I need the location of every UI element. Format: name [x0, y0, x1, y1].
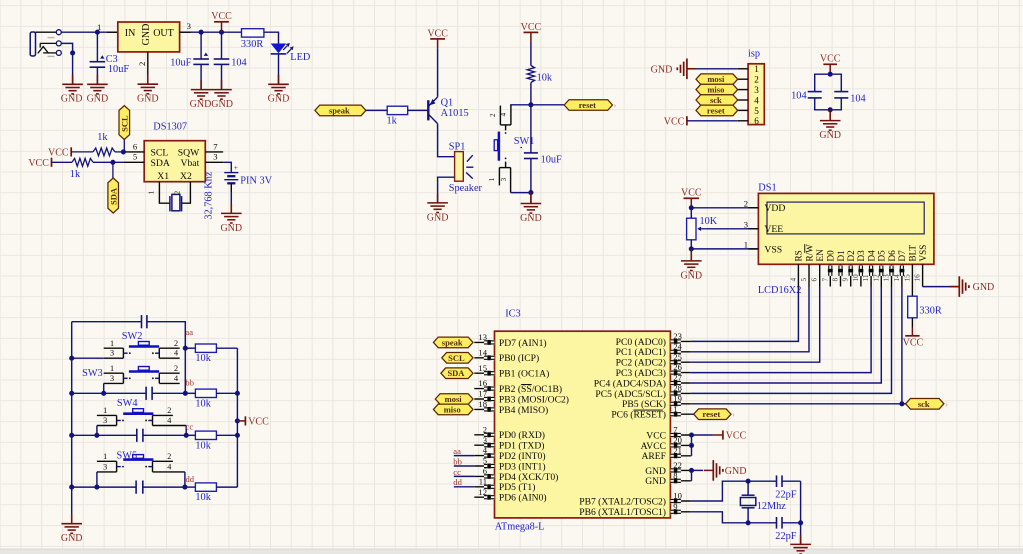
power VCC backlight — [903, 328, 924, 349]
svg-text:AVCC: AVCC — [641, 441, 666, 452]
wire Q1 collector to speaker — [438, 124, 455, 157]
wire SW3 pin3 to rail2 — [103, 383, 105, 393]
wire to ground pot — [690, 249, 692, 261]
junction crystal bottom — [746, 520, 751, 525]
ground LED — [268, 75, 289, 94]
svg-text:A1015: A1015 — [441, 108, 469, 119]
svg-text:1: 1 — [103, 452, 107, 461]
wire SW2 pin3 to left rail — [72, 357, 104, 359]
svg-text:GND: GND — [520, 213, 542, 224]
resistor 1k SCL pullup — [71, 148, 123, 156]
pin 9 D2 of LCD — [842, 250, 856, 287]
svg-text:4: 4 — [483, 445, 488, 455]
resistor 330R backlight — [908, 287, 917, 328]
svg-text:PD7 (AIN1): PD7 (AIN1) — [499, 338, 547, 349]
svg-text:speak: speak — [329, 105, 350, 115]
transistor Q1 A1015 — [428, 96, 437, 123]
svg-text:LCD16X2: LCD16X2 — [758, 285, 801, 296]
junction SDA — [110, 160, 115, 165]
crystal 12Mhz — [740, 481, 755, 523]
svg-text:VCC: VCC — [646, 430, 666, 441]
svg-text:5: 5 — [483, 456, 487, 466]
svg-text:330R: 330R — [919, 306, 941, 317]
wire PB7 to crystal top — [691, 481, 749, 501]
wire rail3 — [72, 434, 187, 436]
svg-text:10k: 10k — [195, 353, 211, 364]
svg-text:PC0 (ADC0): PC0 (ADC0) — [616, 337, 666, 348]
svg-text:22pF: 22pF — [775, 490, 796, 501]
svg-text:3: 3 — [110, 374, 114, 383]
pin 1 of isp — [738, 68, 748, 70]
LED D1 — [271, 43, 294, 54]
wire left rail to ground — [71, 514, 73, 524]
wire cc to PD4 — [454, 475, 475, 477]
svg-text:1: 1 — [488, 177, 496, 181]
svg-text:SDA: SDA — [108, 187, 118, 205]
pin 21 AREF of IC3 — [641, 445, 690, 462]
wire to ground decoupling — [829, 110, 831, 121]
svg-text:VEE: VEE — [764, 224, 783, 235]
junction rail2 far right — [235, 391, 240, 396]
bottom scrollbar strip — [0, 549, 1023, 554]
svg-text:VCC: VCC — [664, 116, 685, 127]
wire SW1 to ground node — [511, 192, 531, 194]
pin 15 PB1 (OC1A) of IC3 — [474, 363, 549, 380]
svg-text:9: 9 — [842, 278, 850, 282]
svg-text:AREF: AREF — [641, 451, 666, 462]
pin 8 GND of IC3 — [645, 470, 690, 487]
wire bb to PD3 — [454, 465, 475, 467]
pin 2 PD0 (RXD) of IC3 — [474, 424, 545, 441]
resistor 10k row1 — [185, 347, 195, 349]
svg-text:13: 13 — [478, 332, 487, 342]
svg-text:PB1 (OC1A): PB1 (OC1A) — [499, 369, 549, 380]
svg-text:SW2: SW2 — [122, 331, 143, 342]
pin 14 PB0 (ICP) of IC3 — [474, 347, 539, 364]
connector J1 power jack — [30, 30, 61, 57]
svg-text:104: 104 — [791, 90, 806, 101]
junction reset node — [528, 102, 533, 107]
pin 15 BLT of LCD — [903, 245, 917, 287]
junction VDD — [689, 205, 694, 210]
ground isp rotated left — [687, 68, 697, 70]
svg-text:9: 9 — [673, 501, 677, 511]
svg-text:GND: GND — [725, 466, 747, 477]
ground switches — [61, 514, 82, 533]
svg-text:1: 1 — [110, 364, 114, 373]
svg-text:3: 3 — [103, 416, 107, 425]
svg-text:GND: GND — [819, 130, 841, 141]
junction SCL — [121, 149, 126, 154]
connector isp body — [748, 64, 764, 125]
svg-text:2: 2 — [744, 199, 748, 209]
svg-text:4: 4 — [174, 349, 178, 358]
svg-text:13: 13 — [883, 274, 891, 282]
svg-text:PB6 (XTAL1/TOSC1): PB6 (XTAL1/TOSC1) — [579, 507, 666, 518]
junction AVCC — [689, 443, 694, 448]
svg-text:›: › — [945, 400, 948, 409]
pin 12 D5 of LCD — [872, 250, 886, 287]
svg-text:330R: 330R — [241, 39, 263, 50]
capacitor 104 right — [830, 74, 848, 110]
junction sck node — [899, 401, 904, 406]
svg-text:SW3: SW3 — [82, 368, 103, 379]
power VCC for SCL pullup — [70, 147, 72, 156]
svg-text:GND: GND — [645, 466, 666, 477]
junction VCC IC3 — [689, 432, 694, 437]
pin 3 wire regulator OUT to VCC node — [180, 31, 242, 33]
svg-text:6: 6 — [754, 116, 759, 126]
svg-text:1k: 1k — [70, 169, 81, 180]
pin 3 PD1 (TXD) of IC3 — [474, 435, 544, 452]
svg-text:10uF: 10uF — [108, 64, 129, 75]
svg-text:miso: miso — [707, 85, 724, 95]
svg-text:SCL: SCL — [448, 353, 465, 363]
svg-text:2: 2 — [167, 406, 171, 415]
svg-text:2: 2 — [754, 75, 759, 85]
pin 11 PD5 (T1) of IC3 — [474, 476, 535, 493]
svg-text:SW4: SW4 — [117, 398, 138, 409]
junction crystal ground — [798, 520, 803, 525]
svg-text:2: 2 — [137, 62, 147, 66]
port mosi at IC3 — [435, 394, 473, 405]
svg-text:cc: cc — [186, 421, 194, 431]
capacitor 104 at regulator output — [214, 32, 230, 89]
capacitor 22pF bottom — [748, 517, 801, 529]
svg-text:28: 28 — [673, 383, 682, 393]
wire wiper to VEE pin 3 — [707, 228, 758, 230]
svg-text:LED: LED — [290, 52, 311, 63]
port SCL at IC3 — [442, 353, 473, 364]
svg-text:3: 3 — [483, 435, 487, 445]
pin 6 of DS1307 — [123, 151, 144, 153]
svg-text:SQW: SQW — [178, 147, 200, 158]
speaker SP1 — [455, 152, 474, 182]
svg-text:GND: GND — [427, 212, 449, 223]
svg-text:3: 3 — [754, 85, 759, 95]
svg-text:12: 12 — [872, 274, 880, 282]
pin 7 D0 of LCD — [821, 250, 835, 287]
switch SW5 push button — [97, 452, 185, 472]
capacitor debounce dd — [135, 481, 137, 494]
svg-text:7: 7 — [213, 141, 218, 151]
pin 10 PB7 (XTAL2/TOSC2) of IC3 — [579, 491, 690, 508]
ground IC3 rotated right — [704, 469, 714, 471]
svg-text:PC5 (ADC5/SCL): PC5 (ADC5/SCL) — [595, 389, 666, 400]
svg-text:1: 1 — [110, 339, 114, 348]
svg-text:10: 10 — [673, 491, 682, 501]
svg-text:GND: GND — [220, 223, 242, 234]
svg-text:VCC: VCC — [820, 54, 841, 65]
pin 22 GND of IC3 — [645, 460, 690, 477]
svg-text:R/W: R/W — [804, 244, 814, 262]
switch SW3 push button — [104, 364, 180, 384]
svg-text:PB2 (SS/OC1B): PB2 (SS/OC1B) — [499, 384, 562, 395]
svg-text:27: 27 — [673, 373, 682, 383]
svg-text:miso: miso — [444, 404, 461, 414]
svg-text:VCC: VCC — [248, 417, 269, 428]
ground regulator — [138, 75, 159, 94]
svg-text:1k: 1k — [387, 116, 398, 127]
svg-text:7: 7 — [673, 425, 678, 435]
port speak at IC3 — [433, 337, 473, 348]
resistor 10k row2 — [185, 392, 195, 394]
svg-text:8: 8 — [832, 278, 840, 282]
wire VCC AVCC AREF — [691, 435, 713, 456]
wire battery to ground — [230, 192, 232, 204]
capacitor debounce cc — [136, 429, 138, 442]
power VCC isp — [664, 116, 687, 127]
pin 10 D3 of LCD — [852, 250, 866, 287]
ground decoupling — [820, 111, 841, 130]
pin 27 PC4 (ADC4/SDA) of IC3 — [594, 373, 691, 390]
svg-text:D7: D7 — [897, 250, 907, 262]
wire SW4 pin3 to rail3 — [96, 426, 98, 436]
wire 10k to reset node — [530, 83, 532, 105]
svg-text:SDA: SDA — [447, 368, 465, 378]
svg-text:dd: dd — [186, 474, 195, 484]
svg-text:reset: reset — [579, 100, 596, 110]
svg-text:GND: GND — [141, 24, 152, 46]
svg-text:SDA: SDA — [151, 158, 170, 169]
svg-text:bb: bb — [453, 456, 462, 466]
port SDA vertical — [112, 162, 114, 178]
svg-text:15: 15 — [478, 363, 487, 373]
wire dd to PD5 — [454, 486, 475, 488]
junction crystal top — [746, 479, 751, 484]
wire LED to ground — [278, 54, 280, 84]
svg-text:IC3: IC3 — [505, 309, 520, 320]
capacitor 10uF at regulator output — [193, 32, 209, 89]
wire jack pin3 to ground — [72, 53, 74, 84]
svg-text:10k: 10k — [195, 492, 211, 503]
pin 6 of isp — [738, 120, 748, 122]
power VCC SW1 — [521, 22, 542, 66]
IC ATmega8 body — [495, 331, 671, 518]
resistor 1k base — [387, 106, 408, 114]
svg-text:24: 24 — [673, 341, 682, 351]
svg-text:PD1 (TXD): PD1 (TXD) — [499, 441, 545, 452]
svg-text:PB0 (ICP): PB0 (ICP) — [499, 353, 539, 364]
svg-text:11: 11 — [479, 476, 487, 486]
svg-text:›: › — [614, 101, 617, 110]
svg-text:D2: D2 — [846, 250, 856, 262]
wire GND pins IC3 — [691, 470, 703, 480]
svg-text:+: + — [234, 164, 238, 172]
junction jack pin3 — [70, 50, 75, 55]
svg-text:21: 21 — [673, 445, 682, 455]
svg-text:PC4 (ADC4/SDA): PC4 (ADC4/SDA) — [594, 378, 666, 389]
IC DS1307 body — [144, 141, 205, 182]
junction rail2 right — [183, 391, 188, 396]
svg-text:GND: GND — [680, 270, 702, 281]
pin 2 of regulator — [147, 52, 149, 84]
pin 23 PC0 (ADC0) of IC3 — [616, 331, 691, 348]
svg-text:DS1: DS1 — [758, 182, 776, 193]
svg-text:SCL: SCL — [120, 115, 130, 132]
svg-text:22pF: 22pF — [775, 531, 796, 542]
svg-text:12Mhz: 12Mhz — [757, 501, 787, 512]
svg-text:3: 3 — [187, 21, 191, 31]
wire reset node to port — [531, 104, 564, 106]
pin 5 of DS1307 — [123, 161, 144, 163]
potentiometer 10K — [687, 208, 707, 249]
junction top decoupling — [828, 72, 833, 77]
junction 10uF cap — [199, 30, 204, 35]
svg-text:aa: aa — [453, 446, 461, 456]
svg-text:1: 1 — [744, 240, 748, 250]
pin 8 D1 of LCD — [832, 250, 846, 287]
pin X1 of DS1307 — [159, 182, 170, 204]
wire speaker to ground — [438, 177, 455, 203]
svg-text:GND: GND — [61, 533, 83, 544]
svg-text:5: 5 — [754, 106, 759, 116]
svg-text:5: 5 — [800, 278, 808, 282]
svg-text:D5: D5 — [877, 250, 887, 262]
wire isp pin6 to VCC — [687, 120, 738, 122]
port SDA at IC3 — [441, 368, 473, 379]
svg-text:sck: sck — [710, 95, 722, 105]
svg-text:GND: GND — [651, 64, 673, 75]
pin 3 Vbat of DS1307 wire to battery — [205, 161, 223, 163]
wire to ground SW1 — [530, 193, 532, 204]
port SCL vertical — [123, 140, 125, 152]
wire D7 to PB5 sck node — [691, 287, 902, 404]
wire rail2 — [72, 392, 186, 394]
svg-text:D4: D4 — [866, 250, 876, 262]
svg-text:VCC: VCC — [903, 338, 924, 349]
svg-text:PD5 (T1): PD5 (T1) — [499, 482, 536, 493]
wire R/W to PC1 — [691, 287, 809, 352]
svg-text:3: 3 — [110, 349, 114, 358]
power VCC IC3 — [713, 430, 747, 441]
switch SW1 push button — [488, 105, 511, 193]
svg-text:RS: RS — [794, 250, 804, 261]
ground battery — [221, 204, 242, 223]
svg-text:20: 20 — [673, 435, 682, 445]
junction 104 cap — [219, 30, 224, 35]
port mosi — [696, 74, 738, 85]
svg-text:PD4 (XCK/T0): PD4 (XCK/T0) — [499, 472, 558, 483]
pin 2 of isp — [738, 78, 748, 80]
svg-text:10k: 10k — [537, 73, 553, 84]
pin 7 SQW of DS1307 — [205, 151, 223, 153]
svg-text:3: 3 — [500, 177, 508, 181]
port miso at IC3 — [433, 404, 473, 415]
svg-text:VDD: VDD — [764, 203, 785, 214]
pin 7 VCC of IC3 — [646, 425, 690, 442]
svg-text:18: 18 — [478, 399, 487, 409]
svg-text:PB3 (MOSI/OC2): PB3 (MOSI/OC2) — [499, 394, 569, 405]
pin 28 PC5 (ADC5/SCL) of IC3 — [595, 383, 690, 400]
svg-text:10K: 10K — [700, 216, 718, 227]
resistor 10k row4 — [185, 486, 196, 488]
svg-text:1: 1 — [754, 64, 759, 74]
pin 19 PB5 (SCK) of IC3 — [622, 393, 691, 410]
resistor 10k pullup — [527, 66, 534, 83]
wire to VSS pin 1 — [691, 248, 758, 250]
svg-text:5: 5 — [133, 152, 137, 162]
svg-text:2: 2 — [174, 364, 178, 373]
svg-text:speak: speak — [442, 337, 463, 347]
wire left rail switches — [71, 322, 73, 514]
svg-text:10: 10 — [852, 274, 860, 282]
svg-text:BLT: BLT — [908, 245, 918, 262]
wire SW4 pin4 jog to rail3 — [185, 426, 187, 436]
svg-text:VCC: VCC — [521, 22, 542, 33]
ground C3 — [87, 75, 108, 94]
junction GND IC3 — [689, 468, 694, 473]
svg-text:6: 6 — [483, 466, 488, 476]
svg-text:4: 4 — [167, 462, 171, 471]
svg-text:PB5 (SCK): PB5 (SCK) — [622, 399, 666, 410]
svg-text:10uF: 10uF — [170, 58, 191, 69]
regulator U1 IN GND OUT — [118, 22, 180, 52]
LCD DS1 body — [758, 193, 934, 264]
battery PIN 3V — [224, 164, 238, 192]
svg-text:6: 6 — [811, 278, 819, 282]
wire PB6 to crystal bottom — [691, 512, 749, 523]
svg-text:PB4 (MISO): PB4 (MISO) — [499, 405, 548, 416]
svg-text:PD0 (RXD): PD0 (RXD) — [499, 430, 545, 441]
svg-text:VCC: VCC — [427, 28, 448, 39]
junction SW1 ground node — [528, 190, 533, 195]
svg-text:IN: IN — [125, 28, 136, 39]
svg-text:4: 4 — [789, 278, 797, 282]
svg-text:VSS: VSS — [764, 244, 782, 255]
svg-text:PD3 (INT1): PD3 (INT1) — [499, 461, 546, 472]
svg-text:VCC: VCC — [48, 148, 69, 159]
resistor 330R — [242, 29, 264, 37]
svg-text:PC6 (RESET): PC6 (RESET) — [611, 410, 666, 421]
pin 24 PC1 (ADC1) of IC3 — [616, 341, 691, 358]
power VCC at regulator output — [221, 22, 223, 32]
pin 4 PD2 (INT0) of IC3 — [474, 445, 545, 462]
ground 104 — [211, 80, 232, 99]
svg-text:1: 1 — [148, 190, 156, 194]
pin 13 PD7 (AIN1) of IC3 — [474, 332, 546, 349]
svg-text:19: 19 — [673, 393, 682, 403]
crystal 32768 Y1 — [170, 194, 182, 211]
pin 4 RS of LCD — [789, 250, 803, 286]
svg-text:D6: D6 — [887, 250, 897, 262]
svg-text:10k: 10k — [195, 440, 211, 451]
svg-text:mosi: mosi — [445, 394, 463, 404]
svg-text:8: 8 — [673, 470, 677, 480]
pin 4 of isp — [738, 99, 748, 101]
pin 5 PD3 (INT1) of IC3 — [474, 456, 545, 473]
wire 330R to LED — [264, 32, 279, 43]
junction rail3 left — [69, 433, 74, 438]
wire 1k to Q1 base — [408, 109, 428, 111]
svg-text:VCC: VCC — [726, 431, 747, 442]
svg-text:SCL: SCL — [151, 147, 169, 158]
svg-text:X2: X2 — [180, 171, 192, 182]
pin 6 PD4 (XCK/T0) of IC3 — [474, 466, 558, 483]
svg-text:aa: aa — [185, 327, 193, 337]
svg-text:104: 104 — [850, 93, 865, 104]
junction SW2 left rail — [69, 356, 74, 361]
wire D6 to PC5 — [691, 287, 892, 394]
junction rail2 left — [69, 391, 74, 396]
svg-text:PB7 (XTAL2/TOSC2): PB7 (XTAL2/TOSC2) — [579, 496, 666, 507]
wire isp pin1 to ground — [687, 68, 737, 70]
wire LCD VSS16 to ground — [922, 286, 924, 288]
svg-text:VCC: VCC — [211, 11, 232, 22]
capacitor debounce aa — [141, 315, 143, 328]
ground speaker — [427, 193, 448, 212]
svg-text:mosi: mosi — [707, 74, 725, 84]
